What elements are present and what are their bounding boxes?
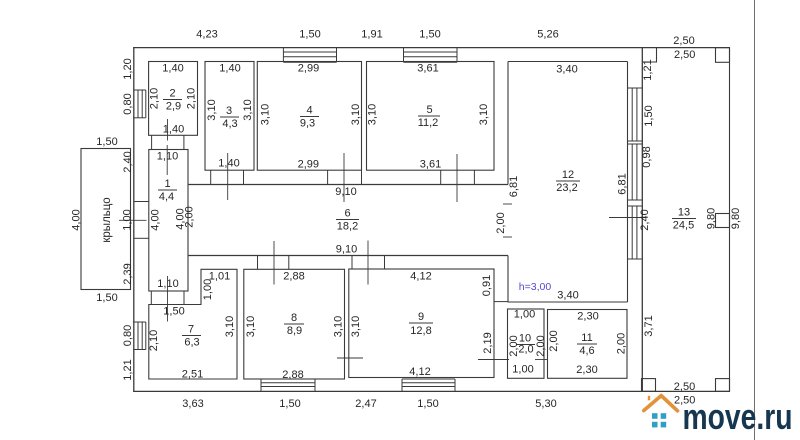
- page fold line right: [754, 0, 756, 440]
- tick door room 8: [273, 241, 275, 285]
- svg-text:4: 4: [306, 105, 312, 117]
- porch rect: [81, 149, 131, 290]
- corridor bottom wall: [188, 255, 508, 257]
- wall veranda right: [729, 48, 731, 392]
- room 12 left wall upper: [507, 62, 509, 185]
- svg-text:5,26: 5,26: [537, 29, 558, 41]
- svg-text:2,00: 2,00: [616, 333, 628, 354]
- svg-text:23,2: 23,2: [556, 182, 577, 194]
- svg-text:9,80: 9,80: [706, 208, 718, 229]
- svg-text:13: 13: [678, 207, 690, 219]
- svg-text:1: 1: [164, 178, 170, 190]
- svg-text:3,10: 3,10: [333, 316, 345, 337]
- window top T2: [404, 48, 458, 63]
- svg-text:2,50: 2,50: [673, 35, 694, 47]
- svg-text:9,3: 9,3: [300, 118, 315, 130]
- svg-text:2,99: 2,99: [298, 63, 319, 75]
- room 12 right wall: [627, 62, 629, 303]
- svg-text:3,10: 3,10: [260, 104, 272, 125]
- svg-text:1,50: 1,50: [96, 136, 117, 148]
- column bottom-right: [716, 379, 730, 392]
- column top-right: [716, 48, 730, 63]
- door jamb below room 3 right: [243, 170, 245, 184]
- svg-text:2,9: 2,9: [166, 101, 181, 113]
- svg-text:1,50: 1,50: [279, 398, 300, 410]
- svg-text:0,98: 0,98: [641, 146, 653, 167]
- door jamb room 9 right: [384, 256, 386, 270]
- tick below room 3: [227, 153, 229, 200]
- svg-text:6: 6: [344, 208, 350, 220]
- svg-text:9: 9: [418, 311, 424, 323]
- svg-text:крыльцо: крыльцо: [101, 197, 113, 242]
- svg-text:2,10: 2,10: [149, 88, 161, 109]
- window top T1: [283, 48, 336, 63]
- svg-text:3,71: 3,71: [643, 315, 655, 336]
- vestibule connector right: [183, 291, 185, 305]
- svg-text:11: 11: [581, 332, 592, 344]
- room 1 to room 2 connector right: [183, 135, 185, 149]
- room 5 box: [367, 62, 495, 171]
- svg-text:3,10: 3,10: [206, 99, 218, 120]
- svg-text:2,00: 2,00: [495, 212, 507, 233]
- svg-text:2,10: 2,10: [148, 330, 160, 351]
- column notch top near main wall: [642, 48, 656, 62]
- svg-text:18,2: 18,2: [337, 221, 358, 233]
- window left L1: [133, 90, 146, 118]
- svg-text:4,3: 4,3: [222, 118, 237, 130]
- svg-text:2,39: 2,39: [122, 263, 134, 284]
- tick door room 2: [167, 119, 169, 141]
- dimension ticks: [119, 119, 646, 360]
- column bottom near main wall: [642, 379, 656, 392]
- svg-text:2,19: 2,19: [482, 332, 494, 353]
- tick door room 1 bottom: [167, 276, 169, 322]
- room 8 box: [244, 269, 345, 379]
- room 12 top wall: [508, 61, 628, 63]
- vestibule connector left: [150, 291, 152, 305]
- svg-text:3,10: 3,10: [367, 104, 379, 125]
- svg-text:3,10: 3,10: [350, 316, 362, 337]
- svg-text:1,40: 1,40: [219, 63, 240, 75]
- svg-text:2,00: 2,00: [535, 335, 547, 356]
- svg-text:12: 12: [562, 169, 574, 181]
- room 10 box: [508, 309, 545, 378]
- svg-text:12,8: 12,8: [410, 325, 431, 337]
- window right RW1: [628, 88, 643, 141]
- tick room 12 door lower dash: [503, 236, 512, 238]
- svg-text:3,61: 3,61: [420, 159, 441, 171]
- svg-text:2,88: 2,88: [282, 369, 303, 381]
- svg-text:2,00: 2,00: [508, 335, 520, 356]
- WINDOWS: [133, 48, 642, 392]
- room 11 box: [548, 310, 628, 379]
- svg-text:2,99: 2,99: [298, 159, 319, 171]
- svg-text:2,40: 2,40: [639, 209, 651, 230]
- svg-text:2,30: 2,30: [576, 364, 597, 376]
- svg-text:3,40: 3,40: [557, 290, 578, 302]
- svg-text:1,40: 1,40: [218, 158, 239, 170]
- svg-text:4,4: 4,4: [159, 191, 174, 203]
- svg-text:1,00: 1,00: [514, 309, 535, 321]
- door jamb room 8 right: [288, 256, 290, 270]
- room 7 polygon: [149, 269, 237, 379]
- door jamb below room 4 left: [327, 170, 329, 184]
- tick room 12 right wall: [609, 217, 646, 219]
- svg-text:2,50: 2,50: [674, 381, 695, 393]
- svg-text:3,61: 3,61: [417, 63, 438, 75]
- door jamb below room 5 right: [473, 170, 475, 184]
- svg-text:1,20: 1,20: [122, 58, 134, 79]
- svg-text:6,81: 6,81: [617, 173, 629, 194]
- svg-text:1,00: 1,00: [122, 209, 134, 230]
- svg-text:0,91: 0,91: [481, 275, 493, 296]
- svg-text:3,10: 3,10: [350, 104, 362, 125]
- svg-text:8: 8: [291, 312, 297, 324]
- svg-text:5: 5: [426, 104, 432, 116]
- svg-text:2,47: 2,47: [355, 398, 376, 410]
- room 3 box: [205, 62, 254, 171]
- svg-text:move.ru: move.ru: [683, 395, 793, 436]
- window bottom B2: [402, 379, 455, 391]
- svg-text:1,50: 1,50: [643, 105, 655, 126]
- svg-text:2,50: 2,50: [674, 49, 695, 61]
- wall outer left: [133, 47, 135, 392]
- svg-text:3,10: 3,10: [224, 316, 236, 337]
- tick rooms 10-11 wall: [535, 359, 547, 361]
- window right RW3: [628, 206, 643, 259]
- wall outer bottom: [133, 390, 730, 392]
- svg-text:1,50: 1,50: [96, 292, 117, 304]
- svg-text:0,80: 0,80: [122, 325, 134, 346]
- wall outer top: [133, 47, 730, 49]
- door jamb room 8 left: [257, 256, 259, 270]
- svg-text:1,40: 1,40: [162, 63, 183, 75]
- svg-text:3,10: 3,10: [478, 104, 490, 125]
- door jamb below room 4 right: [361, 170, 363, 184]
- svg-text:3,10: 3,10: [245, 316, 257, 337]
- tick room 9 right lower: [478, 359, 509, 361]
- svg-text:1,50: 1,50: [299, 29, 320, 41]
- logo chimney: [648, 396, 650, 401]
- tick porch door: [119, 219, 147, 221]
- svg-text:1,21: 1,21: [642, 59, 654, 80]
- svg-text:3,40: 3,40: [556, 64, 577, 76]
- logo squares: [652, 413, 658, 419]
- room 12 left wall lower: [507, 256, 509, 303]
- svg-text:7: 7: [188, 324, 194, 336]
- svg-text:9,80: 9,80: [730, 208, 742, 229]
- svg-text:h=3,00: h=3,00: [519, 281, 552, 293]
- porch door jamb bottom: [134, 237, 149, 239]
- room 2 box: [149, 62, 198, 136]
- svg-text:2,30: 2,30: [577, 311, 598, 323]
- svg-text:9,10: 9,10: [336, 244, 357, 256]
- corridor top wall: [188, 184, 508, 186]
- wall outer right (main): [641, 47, 643, 392]
- svg-text:2,51: 2,51: [182, 369, 203, 381]
- window left L2: [133, 322, 146, 350]
- svg-text:24,5: 24,5: [673, 220, 694, 232]
- svg-text:6,81: 6,81: [508, 176, 520, 197]
- svg-text:6,3: 6,3: [184, 337, 199, 349]
- svg-text:2,10: 2,10: [186, 88, 198, 109]
- svg-text:0,80: 0,80: [122, 93, 134, 114]
- tick below room 5: [456, 154, 458, 202]
- svg-text:1,21: 1,21: [122, 359, 134, 380]
- svg-text:1,40: 1,40: [163, 124, 184, 136]
- tick room 12 door upper dash: [503, 203, 512, 205]
- svg-text:4,00: 4,00: [149, 209, 161, 230]
- svg-text:4,23: 4,23: [196, 29, 217, 41]
- svg-text:2: 2: [169, 88, 175, 100]
- svg-text:1,00: 1,00: [202, 279, 214, 300]
- door jamb below room 5 left: [440, 170, 442, 184]
- door jamb below room 3 left: [210, 170, 212, 184]
- svg-text:1,50: 1,50: [417, 398, 438, 410]
- logo roof: [644, 396, 678, 411]
- porch door jamb top: [134, 201, 149, 203]
- window right RW2: [628, 144, 643, 200]
- column mid-right: [716, 214, 730, 228]
- svg-text:2,0: 2,0: [518, 344, 533, 356]
- room 9 box: [349, 269, 494, 378]
- room 1 box: [149, 150, 188, 292]
- room 1 to room 2 connector left: [151, 135, 153, 149]
- svg-text:2,88: 2,88: [283, 271, 304, 283]
- svg-text:3,10: 3,10: [242, 99, 254, 120]
- svg-text:8,9: 8,9: [287, 325, 302, 337]
- window bottom B1: [261, 379, 315, 391]
- svg-text:2,00: 2,00: [184, 206, 196, 227]
- tick door room 9: [367, 241, 369, 285]
- svg-text:4,00: 4,00: [71, 209, 83, 230]
- svg-text:3,63: 3,63: [182, 398, 203, 410]
- svg-text:2,00: 2,00: [548, 330, 560, 351]
- svg-text:1,10: 1,10: [157, 278, 178, 290]
- svg-text:1,00: 1,00: [512, 364, 533, 376]
- svg-text:2,40: 2,40: [122, 151, 134, 172]
- room 12 bottom wall: [508, 301, 628, 303]
- svg-text:1,50: 1,50: [419, 29, 440, 41]
- svg-text:3: 3: [226, 105, 232, 117]
- room 4 box: [257, 62, 361, 171]
- corridor corner wall to room 9: [494, 301, 508, 303]
- svg-text:4,12: 4,12: [410, 271, 431, 283]
- svg-text:5,30: 5,30: [535, 398, 556, 410]
- door jamb room 9 left: [351, 256, 353, 270]
- svg-text:1,91: 1,91: [361, 29, 382, 41]
- svg-text:1,50: 1,50: [163, 306, 184, 318]
- tick below room 4: [343, 153, 345, 202]
- svg-text:4,12: 4,12: [409, 366, 430, 378]
- svg-text:9,10: 9,10: [335, 186, 356, 198]
- svg-text:11,2: 11,2: [418, 117, 439, 129]
- move.ru logo: [644, 395, 793, 436]
- svg-text:4,6: 4,6: [579, 345, 594, 357]
- svg-text:1,10: 1,10: [157, 151, 178, 163]
- tick door room 1 top: [166, 145, 168, 175]
- tick rooms 8-9 wall: [337, 357, 363, 359]
